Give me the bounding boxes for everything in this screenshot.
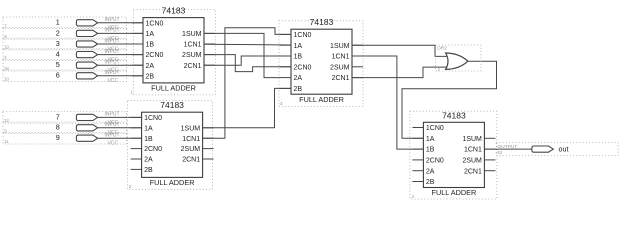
svg-text:1A: 1A: [144, 125, 153, 132]
svg-text:1B: 1B: [294, 54, 303, 61]
pin 1SUM of U4: [484, 137, 495, 139]
wire U1.2CN1 to U3.1B: [204, 56, 291, 65]
pin 2B of U1: [132, 75, 143, 77]
pin 2CN0 of U1: [132, 54, 143, 56]
svg-text:1A: 1A: [426, 136, 435, 143]
svg-text:INPUT: INPUT: [105, 60, 120, 66]
wire U2.1CN1 to U3.1CN0: [203, 28, 291, 138]
pin 2CN0 of U3: [280, 66, 291, 68]
svg-text:1CN1: 1CN1: [182, 136, 200, 143]
pin 1SUM of U2: [203, 127, 214, 129]
svg-text:1SUM: 1SUM: [330, 43, 350, 50]
svg-text:INPUT: INPUT: [105, 112, 120, 118]
pin 2SUM of U4: [484, 159, 495, 161]
pin 1A of U4: [412, 137, 423, 139]
svg-text:1: 1: [56, 18, 60, 27]
wire U2.1SUM to U3.2B: [203, 88, 291, 127]
input pin 6: [3, 70, 143, 84]
output tag out: [532, 145, 569, 154]
input pin 1: [3, 17, 143, 31]
svg-text:2: 2: [438, 67, 441, 72]
svg-text:1B: 1B: [144, 136, 153, 143]
pin 1A of U1: [132, 32, 143, 34]
svg-text:1CN0: 1CN0: [144, 115, 162, 122]
svg-text:FULL ADDER: FULL ADDER: [150, 178, 195, 187]
svg-text:2A: 2A: [294, 75, 303, 82]
svg-text:4: 4: [56, 50, 60, 59]
svg-text:1CN1: 1CN1: [332, 54, 350, 61]
svg-text:FULL ADDER: FULL ADDER: [151, 84, 196, 93]
svg-text:INPUT: INPUT: [105, 122, 120, 128]
pin 2CN1 of U3: [352, 77, 363, 79]
pin 2A of U4: [412, 170, 423, 172]
svg-text:VCC: VCC: [108, 78, 119, 84]
input pin 3: [3, 38, 143, 52]
svg-text:2CN0: 2CN0: [426, 158, 444, 165]
pin 1CN0 of U1: [132, 22, 143, 24]
wire OR2 output to U4.1A: [402, 61, 497, 138]
pin 1SUM of U1: [204, 32, 215, 34]
svg-text:OR2: OR2: [437, 45, 447, 51]
svg-text:FULL ADDER: FULL ADDER: [299, 95, 344, 104]
svg-text:INPUT: INPUT: [105, 133, 120, 139]
pin 2CN0 of U2: [131, 148, 142, 150]
svg-text:2A: 2A: [144, 157, 153, 164]
svg-text:INPUT: INPUT: [105, 49, 120, 55]
svg-text:53: 53: [498, 150, 503, 155]
input pin 5: [3, 59, 143, 73]
svg-text:11: 11: [4, 139, 9, 144]
wire U3.1SUM to OR2 input A: [352, 45, 448, 56]
wire U1.2SUM to U3.2CN0: [204, 55, 291, 72]
pin 2B of U3: [280, 87, 291, 89]
svg-text:74183: 74183: [162, 6, 186, 16]
svg-text:1CN0: 1CN0: [426, 125, 444, 132]
svg-text:74183: 74183: [442, 110, 466, 120]
svg-text:1B: 1B: [146, 42, 155, 49]
svg-text:2SUM: 2SUM: [330, 64, 350, 71]
svg-text:1B: 1B: [426, 147, 435, 154]
svg-text:2B: 2B: [426, 179, 435, 186]
wire U1.1CN1 to U3.1A: [204, 43, 291, 46]
pin 1CN0 of U4: [412, 127, 423, 129]
svg-text:4: 4: [412, 194, 415, 199]
svg-text:74183: 74183: [160, 100, 184, 110]
svg-text:5: 5: [56, 60, 60, 69]
or-gate OR2: [436, 45, 481, 72]
svg-text:2CN1: 2CN1: [464, 168, 482, 175]
svg-text:2SUM: 2SUM: [462, 158, 482, 165]
output net (dashed box, OUTPUT/53 labels): [496, 143, 618, 156]
svg-text:1SUM: 1SUM: [462, 136, 482, 143]
wire U1.1SUM to U3.2A: [204, 33, 280, 77]
svg-text:2SUM: 2SUM: [181, 146, 201, 153]
svg-text:7: 7: [56, 112, 60, 121]
pin 1CN1 of U2: [203, 137, 214, 139]
full adder U4 (74183): [410, 110, 497, 199]
pin 1B of U1: [132, 43, 143, 45]
input pin 8: [3, 122, 142, 136]
svg-text:9: 9: [56, 133, 60, 142]
pin 2B of U2: [131, 168, 142, 170]
svg-text:1SUM: 1SUM: [182, 31, 202, 38]
full adder U2 (74183): [128, 100, 214, 189]
svg-text:2B: 2B: [144, 167, 153, 174]
pin 2A of U2: [131, 158, 142, 160]
svg-text:2A: 2A: [426, 168, 435, 175]
svg-text:2CN0: 2CN0: [294, 64, 312, 71]
svg-text:2B: 2B: [294, 86, 303, 93]
pin 1CN1 of U1: [204, 43, 215, 45]
full adder U3 (74183): [279, 17, 363, 106]
pin 2SUM of U3: [352, 66, 363, 68]
wire U4.1CN1 to output tag: [484, 148, 532, 150]
svg-text:1A: 1A: [146, 31, 155, 38]
pin 1SUM of U3: [352, 44, 363, 46]
svg-text:6: 6: [56, 71, 60, 80]
input pin 2: [3, 28, 143, 42]
svg-text:10: 10: [4, 76, 9, 81]
wire U3.1CN1 to U4.1B: [352, 56, 423, 149]
svg-text:INPUT: INPUT: [105, 17, 120, 23]
svg-text:1SUM: 1SUM: [181, 125, 201, 132]
svg-text:74183: 74183: [310, 17, 334, 27]
pin 1B of U3: [280, 55, 291, 57]
svg-text:1CN1: 1CN1: [184, 42, 202, 49]
pin 1A of U3: [280, 44, 291, 46]
pin 1CN1 of U4: [484, 148, 495, 150]
input pin 4: [3, 49, 143, 63]
svg-text:FULL ADDER: FULL ADDER: [432, 188, 477, 197]
pin 1A of U2: [131, 127, 142, 129]
full adder U1 (74183): [131, 6, 216, 95]
pin 2SUM of U2: [203, 148, 214, 150]
pin 2B of U4: [412, 181, 423, 183]
pin 1CN1 of U3: [352, 55, 363, 57]
pin 2CN1 of U1: [204, 64, 215, 66]
svg-text:2CN1: 2CN1: [332, 75, 350, 82]
svg-text:1CN1: 1CN1: [464, 147, 482, 154]
pin 2A of U3: [280, 77, 291, 79]
svg-text:8: 8: [56, 123, 60, 132]
pin 2SUM of U1: [204, 54, 215, 56]
svg-text:INPUT: INPUT: [105, 38, 120, 44]
svg-text:2: 2: [129, 184, 132, 189]
wire U3.2CN1 to OR2 input B: [352, 67, 448, 78]
svg-text:1A: 1A: [294, 43, 303, 50]
svg-text:2CN0: 2CN0: [144, 146, 162, 153]
pin 1CN0 of U3: [280, 33, 291, 35]
svg-text:1CN0: 1CN0: [146, 20, 164, 27]
pin 1CN0 of U2: [131, 116, 142, 118]
svg-text:2B: 2B: [146, 73, 155, 80]
svg-text:1CN0: 1CN0: [294, 32, 312, 39]
input pin 7: [3, 112, 142, 126]
pin 2CN1 of U4: [484, 170, 495, 172]
svg-text:1: 1: [131, 89, 134, 94]
svg-text:out: out: [559, 145, 569, 154]
svg-text:VCC: VCC: [108, 141, 119, 147]
svg-text:2A: 2A: [146, 63, 155, 70]
svg-text:2CN1: 2CN1: [184, 63, 202, 70]
pin 2CN0 of U4: [412, 159, 423, 161]
input pin 9: [3, 132, 142, 146]
svg-text:3: 3: [280, 101, 283, 106]
pin 1B of U2: [131, 137, 142, 139]
svg-text:INPUT: INPUT: [105, 70, 120, 76]
svg-text:2CN0: 2CN0: [146, 52, 164, 59]
svg-text:INPUT: INPUT: [105, 28, 120, 34]
pin 2CN1 of U2: [203, 158, 214, 160]
svg-text:2SUM: 2SUM: [182, 52, 202, 59]
svg-text:2CN1: 2CN1: [182, 157, 200, 164]
svg-text:3: 3: [56, 39, 60, 48]
pin 1B of U4: [412, 148, 423, 150]
svg-text:2: 2: [56, 28, 60, 37]
pin 2A of U1: [132, 64, 143, 66]
